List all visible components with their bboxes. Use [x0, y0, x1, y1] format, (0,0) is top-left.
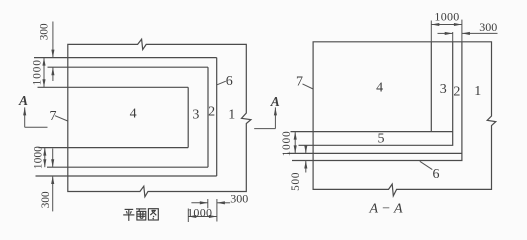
inner slab top — [38, 86, 189, 88]
svg-text:300: 300 — [39, 23, 51, 40]
wall line L2 top — [34, 57, 217, 59]
section marker A left: horizontal — [25, 126, 48, 128]
arrowhead left at 461.9 (300 top dim) — [462, 32, 470, 35]
char 面 — [136, 209, 146, 220]
arrowhead up at L3 top (300 dim companion) — [51, 67, 54, 75]
svg-text:6: 6 — [226, 74, 233, 89]
svg-text:3: 3 — [440, 82, 447, 97]
section marker A right: horizontal — [254, 128, 275, 130]
layer line A (bottom of 4) — [291, 131, 453, 133]
arrowhead up A-marker left — [23, 107, 26, 115]
arrowhead left at 431.3 (1000 top dim) — [431, 23, 439, 26]
dim 1000 top-left line — [43, 58, 45, 88]
svg-text:6: 6 — [433, 167, 440, 182]
dim 1000 top line — [431, 24, 462, 26]
section outer boundary with breaks — [313, 42, 496, 196]
extension of V0 above top — [430, 21, 432, 42]
dim 300 top arrow line left — [438, 32, 453, 34]
svg-text:2: 2 — [208, 104, 215, 119]
arrowhead up at 147.6 (1000 bottom dim) — [43, 148, 46, 156]
dim 300 bottom arrow line right — [217, 202, 230, 204]
svg-text:1: 1 — [474, 84, 481, 99]
svg-text:5: 5 — [378, 131, 385, 146]
inner slab bottom — [39, 147, 189, 149]
arrowhead up at 57.6 (1000 top dim) — [42, 58, 45, 66]
svg-text:2: 2 — [453, 85, 460, 100]
arrowhead right at 216.9 (1000 bottom dim) — [209, 215, 217, 218]
svg-text:1000: 1000 — [32, 146, 44, 169]
arrowhead down at 87.3 (1000 top dim) — [42, 79, 45, 87]
dim 300 top arrow line right — [462, 32, 498, 34]
outer wall rectangle with break symbols — [68, 39, 251, 197]
svg-text:1000: 1000 — [187, 205, 212, 219]
arrowhead down at L3b (300 bottom companion) — [51, 159, 54, 167]
svg-text:300: 300 — [479, 20, 497, 34]
svg-text:1000: 1000 — [434, 10, 459, 24]
wall line Va + layer line B (bottom of 5) — [299, 42, 453, 146]
char 平 — [123, 209, 134, 221]
arrowhead up A-marker right — [274, 107, 277, 115]
arrowhead up at 160.5 (500 dim) — [304, 161, 307, 169]
svg-text:A: A — [270, 94, 280, 109]
arrowhead up at L2b (300 bottom companion) — [51, 176, 54, 184]
svg-text:500: 500 — [290, 172, 302, 191]
extension tick L3r below plan — [207, 199, 209, 208]
svg-text:300: 300 — [40, 191, 52, 208]
caption plan: 平面图 drawn as strokes — [123, 209, 158, 221]
leader for label 6 (plan) — [217, 81, 226, 85]
arrowhead right at 207.8 (300 bottom dim) — [200, 201, 208, 204]
svg-text:7: 7 — [296, 75, 303, 90]
dim 300 bottom-left upper arrow line — [52, 149, 54, 168]
arrowhead down at 153.4 (500 dim) — [304, 145, 307, 153]
inner slab right — [187, 87, 189, 147]
svg-text:A: A — [18, 93, 28, 108]
svg-text:A − A: A − A — [368, 202, 402, 217]
leader for label 6 (section) — [420, 161, 433, 169]
char 图 — [148, 209, 158, 220]
arrowhead down at L2 top (300 dim) — [51, 50, 54, 58]
extension of Vb above top — [461, 20, 463, 42]
extension tick inner-right below plan — [187, 209, 189, 223]
wall line L3 bottom — [47, 166, 208, 168]
dim 300 bottom arrow line left — [191, 202, 207, 204]
wall line L3 right — [207, 67, 209, 167]
svg-text:1: 1 — [228, 107, 235, 122]
region 4 right edge V0 — [430, 42, 432, 132]
svg-text:1000: 1000 — [32, 59, 44, 85]
svg-text:4: 4 — [130, 107, 137, 122]
svg-text:3: 3 — [192, 107, 199, 122]
arrowhead left at 188.3 (1000 bottom dim) — [188, 215, 196, 218]
wall line L2 right — [216, 58, 218, 176]
arrowhead right at 452.7 (300 top dim) — [445, 32, 453, 35]
wall line L2 bottom — [36, 175, 217, 177]
leader for label 7 (plan) — [55, 116, 68, 121]
arrowhead up at 131.6 (1000 left dim) — [294, 132, 297, 140]
dim 1000 left line (section) — [294, 132, 296, 154]
extension tick L2r below plan — [216, 199, 218, 222]
dim 1000 bottom line — [188, 216, 217, 218]
wall line Vb + layer line E (bottom of 6) — [292, 42, 462, 161]
svg-text:7: 7 — [50, 109, 57, 124]
arrowhead down at 153.4 (1000 left dim) — [294, 145, 297, 153]
dim 300 top-left line — [52, 22, 54, 58]
dim 500 upper arrow line — [305, 147, 307, 153]
layer line C — [288, 152, 462, 154]
arrowhead down at 167.2 (1000 bottom dim) — [43, 159, 46, 167]
dim 300 top-left companion arrow line — [52, 67, 54, 81]
svg-text:4: 4 — [376, 81, 383, 96]
arrowhead left at 216.9 (300 bottom dim) — [217, 201, 225, 204]
wall line L3 top — [48, 66, 209, 68]
svg-text:300: 300 — [230, 191, 248, 205]
dim 1000 bottom-left line — [44, 148, 46, 168]
dim 300 bottom-left lower arrow line — [52, 176, 54, 211]
leader for label 7 (section) — [303, 84, 314, 89]
dim 500 lower arrow line — [305, 161, 307, 173]
section marker A right: arrow stem — [274, 107, 276, 128]
arrowhead right at 461.9 (1000 top dim) — [454, 23, 462, 26]
section marker A left: arrow stem — [24, 107, 26, 127]
extension of Va above top — [452, 32, 454, 42]
svg-text:1000: 1000 — [281, 130, 293, 156]
